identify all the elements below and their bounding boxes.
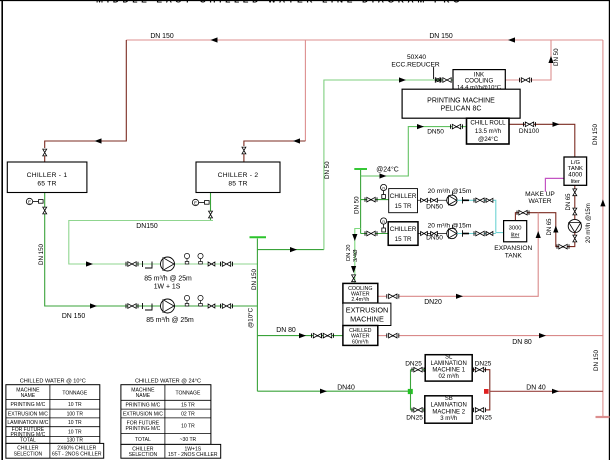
chiller A box 15TR [389,189,418,213]
top page border [0,0,610,2]
arrow into chiller 2 [293,138,300,143]
pipe 24C branch to chill roll [361,127,467,176]
table 1 row total [20,438,83,444]
pipe DN40 supply to laminations [257,390,410,392]
svg-text:DN 150: DN 150 [593,349,600,371]
chiller 2 box [196,162,280,193]
chill roll box [467,118,510,144]
table 1 header [16,387,88,399]
arrow chill roll supply [417,124,424,129]
valve ink cooling inlet [441,78,453,83]
svg-text:65T - 2NOS CHILLER: 65T - 2NOS CHILLER [52,452,102,458]
gauge pump 1 discharge a [184,253,189,264]
svg-text:3/4Ø: 3/4Ø [353,249,359,262]
svg-text:MACHINE: MACHINE [350,315,384,324]
svg-text:13.5 m³/h: 13.5 m³/h [475,128,502,135]
gauge pump 1 discharge b [198,253,203,264]
valve pump 2 suction a [126,304,138,309]
gauge pump 2 discharge a [184,295,189,306]
arrow down 3/4 branch lower [351,266,356,273]
svg-text:1W + 1S: 1W + 1S [154,284,181,291]
valve A discharge c [474,198,486,203]
svg-text:DN25: DN25 [405,361,422,368]
table 1 row printing [11,402,82,408]
table 2 row extrusion [123,411,195,417]
svg-text:PELICAN 8C: PELICAN 8C [441,106,482,113]
svg-text:DN40: DN40 [337,384,355,391]
wire chiller 1 inlet stub [44,156,46,162]
table 1 row extrusion [8,411,84,417]
svg-text:PRINTING M/C: PRINTING M/C [11,402,46,408]
valve expansion tank feed [517,210,529,215]
svg-text:DN50: DN50 [426,234,443,241]
arrow up DN50 branch [548,56,553,63]
valve B discharge tick [463,230,470,237]
svg-text:DN 65: DN 65 [566,193,572,211]
arrow pump line 2 [90,303,97,308]
valve extrusion cooling inlet [352,275,356,282]
pipe DN50 riser to ink cooling [324,80,453,250]
pipe chiller A discharge [418,199,447,201]
svg-text:15T - 2NOS CHILLER: 15T - 2NOS CHILLER [168,452,218,458]
pipe DN150 top return header [126,39,603,41]
node lamination return junction [484,389,489,394]
svg-text:SB: SB [445,396,453,402]
svg-text:MACHINE 2: MACHINE 2 [432,409,465,415]
valve chiller B suction [365,231,377,236]
pump chiller A 20m3h [447,192,457,206]
svg-text:SELECTION: SELECTION [14,452,43,458]
svg-text:CHILLER - 2: CHILLER - 2 [218,172,259,179]
valve makeup discharge horizontal [557,244,569,249]
svg-text:TONNAGE: TONNAGE [175,390,200,396]
pump makeup water P3 [568,219,581,232]
svg-text:CHILL ROLL: CHILL ROLL [470,120,506,127]
lamination machine 1 box [425,354,472,381]
wire DN20 stub at box [378,295,387,297]
pipe chiller A discharge cyan [457,200,496,232]
valve chill roll outlet [524,122,536,127]
svg-text:CHILLER: CHILLER [390,193,417,200]
pipe chiller 2 outlet drop [69,193,258,265]
valve chiller 1 outlet [43,207,47,214]
svg-text:liter: liter [571,179,580,185]
extrusion machine box [343,303,391,325]
chilled water box [343,326,378,346]
valve A discharge tick [463,197,470,204]
pipe chiller B discharge [418,233,447,235]
svg-text:CHILLER: CHILLER [390,226,417,233]
arrow DN40 supply [320,389,327,394]
svg-text:85 TR: 85 TR [228,181,247,188]
arrow up DN20 riser [536,231,541,238]
svg-text:MAKE UP: MAKE UP [525,191,555,198]
svg-text:DN 150: DN 150 [592,123,599,145]
svg-text:DN 150: DN 150 [150,33,174,40]
arrow down 3/4 branch upper [352,234,357,241]
table 2 row printing [126,403,196,409]
LG tank box [564,157,587,185]
table 2 row future [126,421,196,433]
gauge chiller 1 outlet [26,198,43,204]
left page border [1,0,3,460]
svg-text:DN 80: DN 80 [276,327,296,334]
svg-text:CHILLER - 1: CHILLER - 1 [27,172,68,179]
wire chiller 2 inlet stub [243,154,245,162]
wire lam2 inlet stub [423,409,425,411]
arrow up on right riser [600,199,605,206]
valve lamination 2 outlet [474,408,486,413]
flex connector pump 2 suction [143,303,153,310]
reducer 50X40 [435,78,440,83]
svg-text:CHILLED WATER @ 10°C: CHILLED WATER @ 10°C [20,379,86,385]
table 1 frame [6,385,100,444]
svg-text:~30 TR: ~30 TR [180,437,197,443]
valve chiller B discharge a [421,232,428,236]
svg-text:LAMINATION: LAMINATION [431,403,467,409]
pipe chiller B suction [361,233,389,235]
svg-text:10 TR: 10 TR [68,402,82,408]
table 1 row lamination [7,420,82,426]
svg-text:CHILLED WATER @ 24°C: CHILLED WATER @ 24°C [135,379,201,385]
svg-text:15 TR: 15 TR [181,403,195,409]
svg-text:20 m³/h @15m: 20 m³/h @15m [586,203,592,243]
arrow into chiller 1 [95,138,102,143]
svg-text:PRINTING M/C: PRINTING M/C [126,426,161,432]
label MAKE UP WATER [525,191,555,205]
svg-text:10 TR: 10 TR [68,430,82,436]
svg-text:10 TR: 10 TR [181,424,195,430]
chiller 1 box [7,162,87,193]
check valve pump 1 [208,262,215,266]
valve DN80 supply a [312,333,324,338]
svg-text:liter: liter [511,233,520,239]
svg-text:NAME: NAME [136,393,151,399]
valve DN80 supply b [322,333,334,338]
pipe 3/4 branch to extrusion cooling [355,229,361,284]
valve above makeup pump [573,208,577,215]
flex connector pump 1 suction [143,261,153,268]
pipe return drop to chiller 1 [45,40,127,148]
gauge chiller A inlet [381,184,387,198]
chiller B box 15TR [388,222,418,246]
svg-text:DN 150: DN 150 [429,33,453,40]
svg-text:@24°C: @24°C [478,136,499,143]
table 2 header [131,387,201,399]
svg-text:TANK: TANK [505,252,523,259]
valve lamination 1 inlet [412,367,424,372]
svg-text:130 TR: 130 TR [67,438,84,444]
valve chiller 2 inlet [242,147,246,154]
arrow on top header left [211,37,218,42]
label expansion tank [494,245,532,259]
valve chill roll inlet [451,124,463,129]
svg-text:EXPANSION: EXPANSION [494,245,532,252]
svg-text:TOTAL: TOTAL [20,438,36,444]
lamination machine 2 box [425,396,472,423]
arrow 24C branch [380,173,387,178]
svg-text:@10°C: @10°C [248,307,255,328]
arrow DN80 supply [299,333,306,338]
pipe lamination supply riser [411,370,415,410]
pipe chill roll return to LG tank [509,124,575,157]
right page border [608,0,610,460]
pipe chiller 1 outlet drop DN150 [45,193,258,307]
svg-text:COOLING: COOLING [465,78,494,85]
arrow DN20 return [456,294,463,299]
wire lam1 inlet stub [423,369,425,371]
svg-text:DN 40: DN 40 [526,385,546,392]
svg-text:EXTRUSION M/C: EXTRUSION M/C [123,411,163,417]
svg-text:65 TR: 65 TR [37,181,56,188]
svg-text:DN25: DN25 [475,414,492,421]
header cap 24C riser [354,168,367,170]
pipe lamination return collector [472,370,490,410]
valve B discharge c [474,231,486,236]
valve LG tank outlet [573,189,577,196]
printing machine box [402,89,520,118]
table 2 frame [121,385,211,445]
svg-text:20 m³/h @15m: 20 m³/h @15m [428,222,472,229]
pipe DN80 extrusion chilled return [399,335,603,337]
wire DN80 stub at box [378,335,387,337]
svg-text:2.4m³/h: 2.4m³/h [351,297,369,303]
pipe DN 40 return [490,390,603,392]
svg-text:TOTAL: TOTAL [135,437,151,443]
check valve B [486,232,493,236]
svg-text:DN 50: DN 50 [354,196,361,214]
svg-text:DN50: DN50 [427,128,444,135]
pump P2 85 m3/h [161,299,175,313]
svg-text:15 TR: 15 TR [395,236,412,243]
arrow DN40 return [552,389,559,394]
valve chiller A suction [365,197,377,202]
valve chiller 2 outlet [209,211,213,218]
svg-text:DN25: DN25 [406,414,423,421]
pipe DN20 extrusion cooling return [399,213,538,297]
svg-text:DN100: DN100 [519,128,540,135]
valve extrusion chilled outlet [387,333,399,338]
gauge pump 2 discharge b [198,295,203,306]
svg-text:50X40: 50X40 [407,54,426,61]
svg-text:E: E [194,201,197,206]
valve chiller A discharge a [421,198,428,202]
svg-text:MACHINE 1: MACHINE 1 [432,367,465,373]
svg-text:20 m³/h @15m: 20 m³/h @15m [428,188,472,195]
svg-text:DN150: DN150 [136,223,158,230]
check valve pump 2 [208,304,215,308]
svg-text:3000: 3000 [509,226,522,232]
valve chiller A discharge b [431,198,438,202]
table 2 row total [135,437,197,443]
valve lamination 2 inlet [412,408,424,413]
valve chiller B discharge b [431,232,438,236]
svg-text:TONNAGE: TONNAGE [62,390,87,396]
table 1 selection box [6,443,104,458]
end cap right riser [596,416,610,418]
arrow DN80 return [539,333,546,338]
svg-text:100 TR: 100 TR [67,411,84,417]
svg-text:EXTRUSION: EXTRUSION [346,306,389,315]
pipe DN50 ink cooling return branch [505,40,551,80]
valve pump 1 discharge [221,262,233,267]
pipe chiller B discharge cyan [457,232,504,235]
svg-text:NAME: NAME [21,393,36,399]
svg-text:DN 50: DN 50 [553,48,560,66]
pipe main supply riser [256,239,258,392]
pipe 24C suction riser [360,170,362,234]
valve pump 2 discharge [221,304,233,309]
valve pump 1 suction a [126,262,138,267]
svg-text:85 m³/h @ 25m: 85 m³/h @ 25m [144,276,192,283]
svg-text:L/G: L/G [571,160,581,166]
svg-text:10 TR: 10 TR [68,420,82,426]
pipe riser branch to DN50 riser [257,249,324,251]
svg-text:DN 65: DN 65 [547,218,553,236]
svg-text:WATER: WATER [528,198,551,205]
svg-text:3 m³/h: 3 m³/h [440,416,457,422]
svg-text:DN 50: DN 50 [324,161,331,179]
check valve A [486,198,493,202]
svg-text:DN 80: DN 80 [512,339,532,346]
clipped title strip at top [96,0,497,5]
svg-text:SL: SL [445,354,453,360]
svg-text:85 m³/h @ 25m: 85 m³/h @ 25m [146,317,194,324]
svg-text:02 TR: 02 TR [181,411,195,417]
svg-text:DN 150: DN 150 [38,243,45,265]
svg-text:DN 20: DN 20 [346,245,352,261]
leader ecc reducer [433,67,435,79]
svg-text:DN20: DN20 [424,299,442,306]
svg-text:DN25: DN25 [475,361,492,368]
pump P1 85 m3/h [161,257,175,271]
svg-text:4000: 4000 [568,172,583,179]
svg-text:DN 150: DN 150 [251,268,258,290]
arrow up makeup riser [553,226,558,233]
pipe makeup pump discharge [515,213,574,247]
svg-text:ECC.REDUCER: ECC.REDUCER [391,62,440,69]
svg-text:DN 150: DN 150 [62,313,86,320]
svg-text:E: E [28,200,31,205]
svg-text:PRINTING M/C: PRINTING M/C [126,403,161,409]
pipe chiller A suction [361,199,389,201]
cooling water box [343,283,378,303]
table 1 row future [11,427,82,438]
svg-text:15 TR: 15 TR [395,203,412,210]
pump chiller B 20m3h [447,225,457,239]
svg-text:@24°C: @24°C [376,166,398,174]
pipe makeup water LG tank down leg [574,185,576,219]
ink cooling box [453,70,505,91]
svg-text:LAMINATION M/C: LAMINATION M/C [7,420,48,426]
valve ink cooling outlet [520,78,532,83]
arrow riser branch [290,247,297,252]
pipe return drop to chiller 2 [244,40,306,146]
svg-text:60m³/h: 60m³/h [352,339,369,345]
node lamination supply junction [408,389,413,394]
svg-text:LAMINATION: LAMINATION [431,361,467,367]
pipe DN150 right main return riser [602,40,604,417]
arrow ink cooling supply [399,77,406,82]
table 2 selection box [121,444,221,458]
arrow on top header right [508,37,515,42]
pipe makeup magenta line [545,178,564,191]
header cap main riser [250,236,267,238]
gauge chiller 2 outlet [192,199,209,205]
valve lamination 1 outlet [474,367,486,372]
valve chiller 1 inlet [43,149,47,156]
arrow pump line 1 [86,261,93,266]
svg-text:SELECTION: SELECTION [129,452,158,458]
valve extrusion cooling outlet [387,294,399,299]
pipe DN 80 supply to extrusion [257,335,343,337]
valve below makeup pump [573,235,577,242]
arrow chill roll return [553,122,560,127]
gauge chiller B inlet [381,218,387,232]
svg-text:EXTRUSION M/C: EXTRUSION M/C [8,411,48,417]
expansion tank box [504,221,527,242]
svg-text:PRINTING MACHINE: PRINTING MACHINE [427,98,495,105]
svg-text:DN50: DN50 [426,203,443,210]
svg-text:02 m³/h: 02 m³/h [439,374,459,380]
